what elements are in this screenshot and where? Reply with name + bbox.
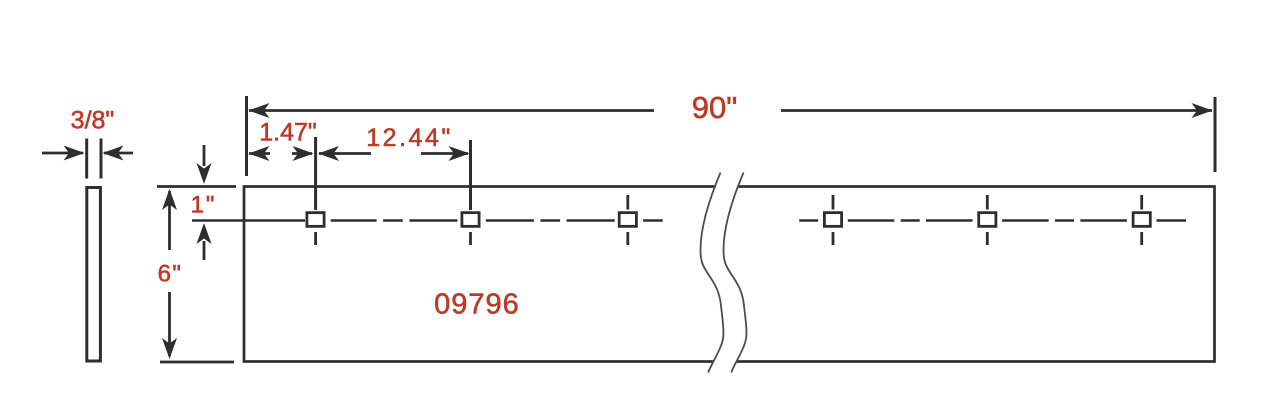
svg-text:09796: 09796 <box>434 289 520 321</box>
svg-text:12.44": 12.44" <box>366 124 452 152</box>
svg-text:1.47": 1.47" <box>259 119 317 147</box>
svg-text:90": 90" <box>692 90 738 125</box>
svg-text:1": 1" <box>191 192 217 219</box>
svg-text:3/8": 3/8" <box>71 107 115 135</box>
svg-text:6": 6" <box>158 261 183 288</box>
